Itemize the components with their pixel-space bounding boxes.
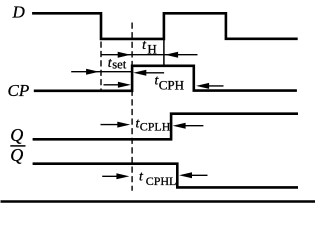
D waveform [32, 13, 298, 39]
svg-text:CPLH: CPLH [140, 119, 171, 133]
extension line below D rising edge [163, 39, 165, 67]
svg-text:CPH: CPH [159, 78, 184, 93]
Q-bar waveform [33, 164, 298, 188]
svg-text:CPHL: CPHL [146, 174, 177, 188]
svg-text:D: D [12, 3, 26, 22]
dashed reference line at CP rising edge (center) [131, 23, 133, 191]
svg-text:set: set [112, 58, 126, 72]
bottom rule [1, 200, 316, 203]
tCPHL right arrow (points left at Q-bar falling edge) [190, 174, 208, 176]
tH dimension line [101, 54, 197, 56]
tH right arrowhead (points left at D rising edge) [165, 52, 178, 58]
tset lower arrow (points right at CP rising edge) [104, 84, 121, 86]
svg-text:H: H [147, 41, 156, 56]
tCPH left arrow (points left at CP rising edge) [144, 72, 165, 74]
Q waveform [33, 114, 298, 140]
svg-text:CP: CP [8, 81, 30, 100]
svg-text:Q: Q [10, 145, 23, 165]
tCPLH left arrow (points right at center dashed line) [101, 124, 120, 126]
tCPHL left arrow (points right at center dashed line) [102, 175, 118, 177]
svg-text:Q: Q [10, 125, 23, 145]
overline of Q-bar [10, 145, 25, 147]
dashed reference line at D falling edge [100, 42, 102, 91]
tH left arrowhead (points right at center line) [118, 52, 131, 58]
tCPLH right arrow (points left at Q rising edge) [184, 125, 203, 127]
CP waveform [34, 66, 297, 91]
tset upper arrow (points right at D edge dashed line) [71, 71, 132, 73]
tCPH right arrow (points left at CP falling edge) [207, 85, 224, 87]
